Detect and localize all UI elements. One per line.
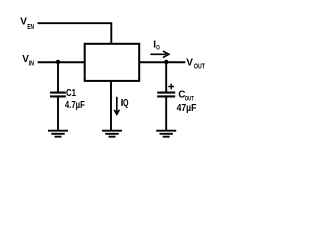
node VIN label bbox=[22, 54, 34, 67]
svg-text:4.7µF: 4.7µF bbox=[65, 100, 85, 111]
current IQ arrow bbox=[114, 97, 119, 115]
wire COUT lower lead bbox=[165, 96, 167, 130]
polarity plus mark COUT bbox=[168, 84, 174, 90]
wire U1 output to VOUT bbox=[139, 61, 185, 63]
wire COUT upper lead bbox=[165, 62, 167, 92]
wire C1 lower lead bbox=[57, 96, 59, 130]
junction dot input node bbox=[56, 60, 60, 64]
svg-text:OUT: OUT bbox=[194, 63, 206, 70]
ground symbol U1 bbox=[102, 131, 122, 137]
current IO arrow bbox=[150, 51, 169, 57]
junction dot output node bbox=[164, 60, 168, 64]
wire VIN to U1 input pin bbox=[38, 61, 85, 63]
node VEN label bbox=[20, 17, 34, 31]
label IQ bbox=[121, 98, 129, 109]
svg-text:V: V bbox=[186, 57, 193, 68]
label COUT bbox=[178, 89, 194, 102]
ground symbol C1 bbox=[48, 131, 68, 137]
svg-text:47µF: 47µF bbox=[177, 103, 197, 114]
capacitor C1 bbox=[50, 93, 66, 97]
svg-text:Q: Q bbox=[123, 98, 129, 109]
svg-text:OUT: OUT bbox=[185, 95, 194, 102]
ground symbol COUT bbox=[156, 131, 176, 137]
svg-text:O: O bbox=[156, 45, 160, 52]
node VOUT label bbox=[186, 57, 205, 70]
regulator U1 box bbox=[85, 44, 140, 81]
label IO bbox=[153, 39, 160, 51]
wire VEN to U1 enable pin bbox=[38, 22, 112, 44]
svg-text:IN: IN bbox=[29, 60, 34, 67]
svg-text:C1: C1 bbox=[66, 88, 76, 99]
capacitor COUT bbox=[157, 93, 175, 97]
svg-text:EN: EN bbox=[27, 24, 34, 31]
wire U1 ground pin bbox=[110, 81, 112, 131]
wire C1 upper lead bbox=[57, 62, 59, 92]
